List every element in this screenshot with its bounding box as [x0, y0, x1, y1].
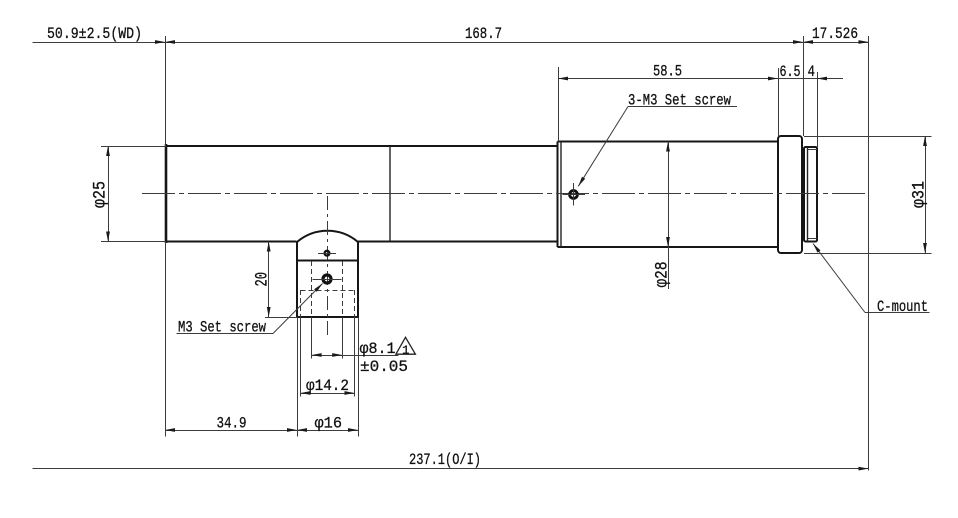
svg-text:3-M3 Set screw: 3-M3 Set screw: [628, 92, 731, 110]
svg-text:φ31: φ31: [910, 181, 930, 208]
svg-text:φ28: φ28: [653, 262, 673, 288]
svg-text:φ25: φ25: [91, 181, 111, 208]
svg-text:M3 Set screw: M3 Set screw: [178, 319, 266, 337]
svg-text:168.7: 168.7: [465, 25, 502, 43]
svg-text:C-mount: C-mount: [877, 298, 928, 316]
svg-text:φ8.1: φ8.1: [360, 340, 396, 358]
svg-text:6.5: 6.5: [780, 63, 801, 81]
svg-text:17.526: 17.526: [812, 25, 858, 43]
svg-text:20: 20: [253, 272, 273, 287]
svg-text:φ14.2: φ14.2: [306, 377, 349, 395]
svg-text:4: 4: [808, 63, 816, 81]
svg-text:50.9±2.5(WD): 50.9±2.5(WD): [47, 25, 142, 43]
svg-text:±0.05: ±0.05: [360, 358, 408, 376]
svg-text:1: 1: [402, 344, 409, 358]
svg-text:φ16: φ16: [315, 414, 343, 432]
svg-text:34.9: 34.9: [217, 414, 247, 432]
svg-text:58.5: 58.5: [653, 63, 682, 81]
svg-text:237.1(O/I): 237.1(O/I): [409, 451, 481, 469]
